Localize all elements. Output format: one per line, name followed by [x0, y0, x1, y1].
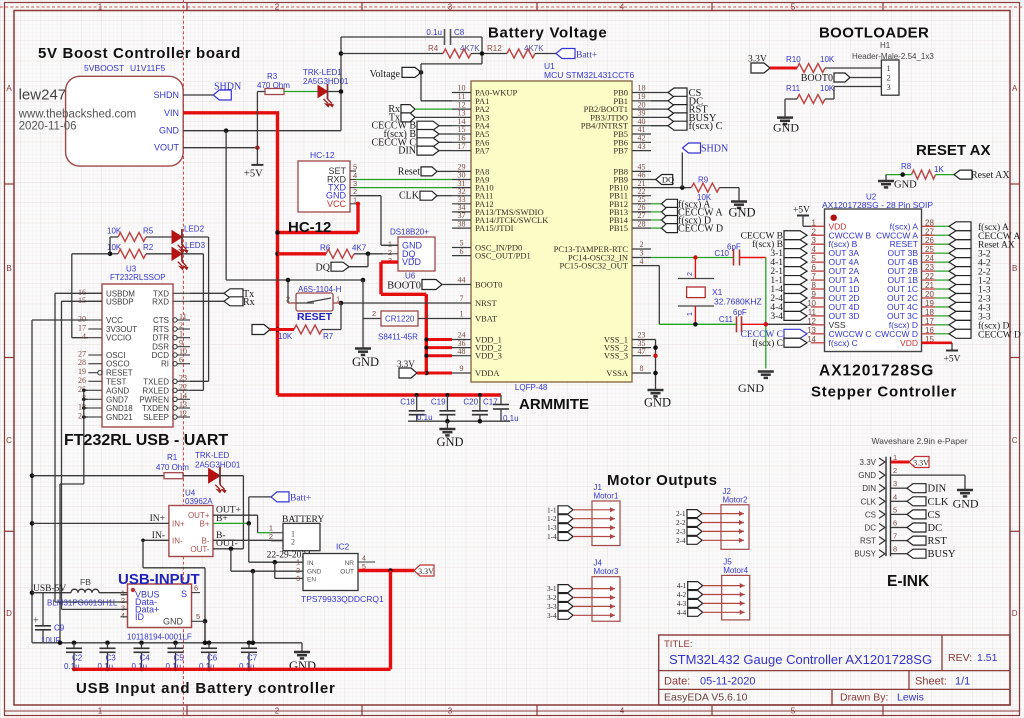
- svg-text:1: 1: [336, 295, 340, 304]
- svg-text:VSS_3: VSS_3: [604, 351, 628, 361]
- svg-text:7: 7: [893, 532, 897, 541]
- svg-text:VDD: VDD: [402, 257, 422, 267]
- svg-text:4: 4: [893, 492, 897, 501]
- svg-text:CLK: CLK: [928, 497, 949, 508]
- svg-text:ID: ID: [135, 612, 145, 622]
- svg-text:RESET: RESET: [297, 311, 333, 323]
- svg-text:CS: CS: [865, 510, 876, 519]
- svg-text:6: 6: [179, 356, 183, 365]
- svg-text:4-4: 4-4: [677, 609, 687, 617]
- svg-text:2A5G3HD01: 2A5G3HD01: [303, 77, 349, 86]
- svg-text:Motor2: Motor2: [723, 495, 748, 504]
- svg-text:PC15-OSC32_OUT: PC15-OSC32_OUT: [560, 261, 629, 271]
- svg-text:STM32L432 Gauge Controller AX1: STM32L432 Gauge Controller AX1201728SG: [669, 652, 932, 667]
- svg-text:GND: GND: [773, 121, 799, 135]
- svg-text:RI: RI: [161, 360, 169, 369]
- svg-text:4-2: 4-2: [677, 591, 687, 599]
- svg-text:CLK: CLK: [860, 497, 876, 506]
- svg-text:C9: C9: [54, 624, 65, 633]
- svg-text:DS18B20+: DS18B20+: [390, 228, 429, 237]
- svg-text:f(scx) C: f(scx) C: [689, 121, 723, 132]
- svg-text:HC-12: HC-12: [310, 150, 335, 160]
- svg-text:CR1220: CR1220: [385, 315, 415, 324]
- svg-text:VCCIO: VCCIO: [106, 334, 131, 343]
- svg-text:5: 5: [893, 505, 897, 514]
- svg-text:Voltage: Voltage: [370, 69, 401, 80]
- svg-text:Reset AX: Reset AX: [971, 170, 1010, 181]
- svg-text:GND: GND: [307, 569, 322, 576]
- svg-text:DQ: DQ: [316, 263, 331, 274]
- svg-text:+5V: +5V: [793, 206, 810, 216]
- svg-text:C18: C18: [400, 398, 415, 407]
- svg-text:S8411-45R: S8411-45R: [378, 333, 418, 342]
- svg-text:R2: R2: [143, 243, 154, 252]
- svg-text:PWREN: PWREN: [139, 395, 169, 404]
- svg-text:GND: GND: [953, 497, 979, 511]
- svg-text:IN+: IN+: [150, 514, 165, 524]
- svg-text:3: 3: [893, 479, 897, 488]
- svg-text:LED2: LED2: [184, 225, 205, 234]
- svg-text:470 Ohm: 470 Ohm: [156, 463, 189, 472]
- svg-text:44: 44: [458, 276, 466, 285]
- svg-text:DIN: DIN: [862, 484, 876, 493]
- svg-text:R11: R11: [786, 84, 801, 93]
- svg-text:GND18: GND18: [106, 404, 133, 413]
- svg-text:VDD_3: VDD_3: [475, 351, 502, 361]
- svg-text:3.3V: 3.3V: [913, 459, 929, 468]
- svg-text:10K: 10K: [278, 332, 293, 341]
- svg-text:0.1u: 0.1u: [426, 28, 442, 37]
- svg-text:CECCW D: CECCW D: [978, 330, 1021, 340]
- svg-text:20: 20: [78, 315, 86, 324]
- svg-text:D: D: [1012, 609, 1018, 618]
- svg-text:4K7: 4K7: [352, 244, 367, 253]
- svg-text:22: 22: [179, 382, 187, 391]
- svg-text:CLK: CLK: [399, 191, 420, 202]
- svg-text:2: 2: [372, 309, 376, 318]
- svg-text:EasyEDA V5.6.10: EasyEDA V5.6.10: [664, 692, 748, 704]
- svg-text:f(scx) C: f(scx) C: [829, 338, 858, 348]
- svg-text:GND: GND: [163, 617, 184, 627]
- svg-text:23: 23: [179, 373, 187, 382]
- svg-text:RST: RST: [860, 537, 876, 546]
- svg-text:5VBOOST: 5VBOOST: [84, 63, 124, 73]
- svg-text:D: D: [6, 609, 12, 618]
- svg-text:C: C: [1012, 436, 1018, 445]
- svg-text:GND: GND: [644, 396, 671, 410]
- svg-text:10UF: 10UF: [41, 636, 61, 645]
- svg-text:26: 26: [78, 376, 86, 385]
- svg-text:4: 4: [620, 707, 625, 716]
- svg-text:OUT: OUT: [340, 569, 354, 576]
- svg-text:2: 2: [291, 538, 295, 547]
- svg-text:Batt+: Batt+: [290, 494, 311, 504]
- svg-text:6: 6: [893, 519, 897, 528]
- svg-text:R4: R4: [428, 44, 439, 53]
- svg-text:GND7: GND7: [106, 395, 129, 404]
- svg-text:DC: DC: [928, 523, 943, 534]
- svg-text:EN: EN: [307, 577, 316, 584]
- svg-text:Stepper Controller: Stepper Controller: [811, 384, 957, 401]
- svg-text:1/1: 1/1: [955, 676, 970, 688]
- svg-text:17: 17: [458, 142, 466, 151]
- svg-text:GND: GND: [729, 206, 756, 220]
- svg-text:RXLED: RXLED: [142, 386, 169, 395]
- svg-text:28: 28: [78, 358, 86, 367]
- svg-text:2: 2: [687, 272, 694, 276]
- svg-text:3-2: 3-2: [547, 594, 557, 602]
- svg-text:GND: GND: [738, 381, 764, 395]
- svg-text:FT232RL USB - UART: FT232RL USB - UART: [64, 432, 228, 449]
- svg-text:3: 3: [448, 707, 453, 716]
- svg-text:RST: RST: [928, 536, 948, 547]
- svg-text:Waveshare 2.9in e-Paper: Waveshare 2.9in e-Paper: [872, 436, 968, 446]
- svg-text:Batt+: Batt+: [576, 51, 597, 61]
- svg-text:R12: R12: [487, 44, 502, 53]
- svg-text:SHDN: SHDN: [701, 144, 728, 155]
- svg-text:1: 1: [887, 63, 891, 73]
- svg-text:13: 13: [179, 400, 187, 409]
- svg-text:1: 1: [296, 560, 300, 567]
- svg-text:TRK-LED: TRK-LED: [195, 451, 229, 460]
- svg-text:1-1: 1-1: [547, 506, 557, 514]
- svg-text:www.thebackshed.com: www.thebackshed.com: [18, 109, 137, 121]
- svg-text:2-3: 2-3: [676, 528, 686, 536]
- svg-text:2: 2: [887, 73, 891, 83]
- svg-text:4: 4: [82, 332, 86, 341]
- svg-text:E-INK: E-INK: [887, 573, 930, 590]
- svg-text:14: 14: [179, 391, 187, 400]
- svg-text:CTS: CTS: [153, 316, 169, 325]
- svg-text:B+: B+: [199, 519, 209, 528]
- svg-text:C19: C19: [431, 398, 446, 407]
- svg-text:AX1201728SG: AX1201728SG: [819, 363, 934, 380]
- svg-text:3-4: 3-4: [547, 612, 557, 620]
- svg-text:8: 8: [640, 364, 644, 373]
- svg-text:BUSY: BUSY: [928, 549, 956, 560]
- svg-text:PA7: PA7: [475, 146, 489, 156]
- svg-text:Date:: Date:: [664, 676, 690, 688]
- svg-text:17: 17: [78, 324, 86, 333]
- svg-text:C20: C20: [463, 398, 478, 407]
- svg-text:1-3: 1-3: [547, 524, 557, 532]
- svg-text:6pF: 6pF: [733, 308, 747, 317]
- svg-text:U1V11F5: U1V11F5: [130, 63, 166, 73]
- svg-text:FT232RLSSOP: FT232RLSSOP: [110, 273, 166, 282]
- svg-text:C8: C8: [454, 28, 465, 37]
- svg-text:BOOT0: BOOT0: [387, 281, 421, 292]
- svg-text:TITLE:: TITLE:: [664, 639, 693, 650]
- svg-text:Lewis: Lewis: [897, 692, 924, 704]
- svg-text:BLM31PG601SH1L: BLM31PG601SH1L: [47, 599, 118, 608]
- svg-text:Rx: Rx: [243, 297, 255, 308]
- svg-text:VIN: VIN: [164, 108, 179, 118]
- svg-text:BOOTLOADER: BOOTLOADER: [819, 25, 929, 42]
- svg-text:+5V: +5V: [244, 169, 263, 180]
- svg-text:PB7: PB7: [613, 146, 628, 156]
- svg-text:R10: R10: [786, 55, 801, 64]
- svg-text:38: 38: [458, 219, 466, 228]
- svg-text:05-11-2020: 05-11-2020: [700, 676, 755, 688]
- svg-text:NR: NR: [345, 560, 355, 567]
- svg-text:Sheet:: Sheet:: [915, 676, 947, 688]
- svg-text:27: 27: [78, 350, 86, 359]
- svg-text:GND: GND: [858, 471, 876, 480]
- svg-text:GND: GND: [437, 435, 464, 449]
- svg-text:DTR: DTR: [153, 334, 170, 343]
- svg-text:9: 9: [460, 364, 464, 373]
- svg-text:B: B: [6, 264, 11, 273]
- svg-text:R5: R5: [143, 227, 154, 236]
- svg-text:5: 5: [196, 612, 200, 621]
- svg-text:VOUT: VOUT: [154, 143, 180, 153]
- svg-text:03962A: 03962A: [185, 497, 213, 506]
- svg-text:TEST: TEST: [106, 377, 127, 386]
- svg-text:1: 1: [425, 309, 429, 318]
- svg-text:OSCI: OSCI: [106, 351, 126, 360]
- svg-text:PA15/JTDI: PA15/JTDI: [475, 223, 514, 233]
- svg-text:5: 5: [791, 707, 796, 716]
- svg-text:3-4: 3-4: [770, 312, 783, 322]
- svg-text:1.51: 1.51: [977, 652, 998, 664]
- svg-text:1-4: 1-4: [547, 533, 557, 541]
- svg-text:DCD: DCD: [152, 351, 170, 360]
- svg-text:GND: GND: [352, 355, 379, 369]
- svg-text:GND: GND: [894, 180, 917, 191]
- svg-text:R3: R3: [267, 72, 278, 81]
- svg-text:Motor3: Motor3: [594, 567, 619, 576]
- svg-text:2: 2: [893, 466, 897, 475]
- svg-text:A: A: [1012, 84, 1018, 93]
- svg-text:Motor4: Motor4: [723, 566, 748, 575]
- svg-text:X1: X1: [712, 287, 723, 297]
- svg-text:3V3OUT: 3V3OUT: [106, 325, 137, 334]
- svg-text:BUSY: BUSY: [854, 550, 876, 559]
- svg-text:LQFP-48: LQFP-48: [515, 383, 548, 392]
- svg-text:1: 1: [687, 312, 694, 316]
- svg-text:IN+: IN+: [172, 519, 185, 528]
- svg-text:VDD: VDD: [900, 338, 918, 348]
- svg-text:15: 15: [78, 296, 86, 305]
- svg-text:3-1: 3-1: [547, 585, 557, 593]
- svg-text:lew247: lew247: [19, 87, 67, 104]
- svg-text:2: 2: [275, 707, 280, 716]
- svg-text:DIN: DIN: [928, 484, 947, 495]
- svg-text:S: S: [181, 589, 187, 599]
- svg-text:IN: IN: [307, 560, 314, 567]
- svg-text:PB15: PB15: [609, 223, 628, 233]
- svg-text:4: 4: [121, 611, 125, 620]
- svg-text:VCC: VCC: [106, 316, 123, 325]
- svg-text:IN-: IN-: [172, 536, 183, 545]
- svg-text:3: 3: [887, 82, 891, 92]
- svg-text:12: 12: [179, 409, 187, 418]
- svg-text:1: 1: [98, 707, 103, 716]
- svg-text:OSC_OUT/PD1: OSC_OUT/PD1: [475, 251, 531, 261]
- svg-text:DIN: DIN: [398, 146, 416, 157]
- svg-text:FB: FB: [80, 577, 91, 587]
- svg-text:IN-: IN-: [152, 531, 165, 541]
- svg-text:U6: U6: [405, 272, 416, 281]
- svg-text:2-1: 2-1: [676, 510, 686, 518]
- svg-text:HC-12: HC-12: [288, 219, 331, 236]
- svg-text:f(scx) C: f(scx) C: [752, 338, 783, 349]
- svg-text:10K: 10K: [820, 55, 835, 64]
- svg-text:VCC: VCC: [327, 199, 347, 209]
- svg-text:B: B: [1012, 264, 1017, 273]
- svg-text:NRST: NRST: [475, 298, 498, 308]
- svg-text:48: 48: [458, 347, 466, 356]
- svg-text:10118194-0001LF: 10118194-0001LF: [127, 633, 192, 642]
- svg-text:4-1: 4-1: [677, 582, 687, 590]
- svg-text:RTS: RTS: [153, 325, 169, 334]
- svg-text:3-3: 3-3: [547, 603, 557, 611]
- svg-text:2: 2: [179, 321, 183, 330]
- svg-text:2A5G3HD01: 2A5G3HD01: [195, 461, 241, 470]
- svg-text:GND: GND: [159, 126, 180, 136]
- svg-text:7: 7: [460, 294, 464, 303]
- svg-text:R1: R1: [167, 453, 178, 462]
- svg-text:VBAT: VBAT: [475, 314, 498, 324]
- svg-text:DC: DC: [864, 524, 876, 533]
- svg-text:TXLED: TXLED: [143, 377, 169, 386]
- svg-text:3: 3: [296, 576, 300, 583]
- svg-text:OUT-: OUT-: [190, 545, 209, 554]
- svg-text:IC2: IC2: [336, 542, 350, 552]
- svg-text:28: 28: [638, 219, 646, 228]
- svg-text:DQ: DQ: [662, 175, 674, 185]
- svg-text:Motor Outputs: Motor Outputs: [607, 472, 717, 489]
- svg-text:TRK-LED1: TRK-LED1: [303, 68, 342, 77]
- svg-text:ARMMITE: ARMMITE: [519, 396, 589, 413]
- svg-text:USB Input and Battery controll: USB Input and Battery controller: [76, 680, 336, 697]
- svg-text:47: 47: [638, 347, 646, 356]
- svg-text:OSCO: OSCO: [106, 360, 130, 369]
- svg-text:11: 11: [179, 312, 187, 321]
- svg-text:4: 4: [640, 257, 644, 266]
- svg-text:CS: CS: [928, 510, 941, 521]
- svg-text:8: 8: [893, 545, 897, 554]
- svg-text:TPS79933QDDCRQ1: TPS79933QDDCRQ1: [301, 594, 384, 604]
- svg-text:10: 10: [179, 347, 187, 356]
- svg-text:32.7680KHZ: 32.7680KHZ: [714, 297, 762, 307]
- svg-text:1: 1: [179, 330, 183, 339]
- svg-text:MCU STM32L431CCT6: MCU STM32L431CCT6: [544, 70, 634, 80]
- svg-text:R7: R7: [323, 332, 334, 341]
- svg-text:USBDP: USBDP: [106, 297, 134, 306]
- svg-text:VDDA: VDDA: [475, 368, 500, 378]
- svg-text:RXD: RXD: [152, 297, 169, 306]
- svg-text:C11: C11: [719, 315, 734, 324]
- svg-text:C: C: [6, 436, 12, 445]
- svg-text:3.3V: 3.3V: [418, 567, 434, 576]
- svg-text:VSSA: VSSA: [606, 368, 629, 378]
- svg-text:SLEEP: SLEEP: [143, 413, 169, 422]
- svg-text:4-3: 4-3: [677, 600, 687, 608]
- svg-text:6: 6: [460, 247, 464, 256]
- svg-text:C17: C17: [483, 398, 498, 407]
- svg-text:GND21: GND21: [106, 413, 133, 422]
- svg-text:AGND: AGND: [106, 386, 129, 395]
- svg-text:R8: R8: [901, 162, 912, 171]
- svg-text:1K: 1K: [934, 165, 944, 174]
- svg-text:2: 2: [296, 568, 300, 575]
- svg-text:2-2: 2-2: [676, 519, 686, 527]
- svg-text:TXDEN: TXDEN: [142, 404, 169, 413]
- svg-text:2-4: 2-4: [676, 537, 686, 545]
- svg-text:Reset: Reset: [398, 166, 420, 177]
- svg-text:Battery Voltage: Battery Voltage: [488, 25, 607, 42]
- svg-text:10K: 10K: [820, 84, 835, 93]
- svg-text:1-2: 1-2: [547, 515, 557, 523]
- svg-text:+: +: [33, 616, 39, 627]
- svg-text:BOOT0: BOOT0: [475, 280, 502, 290]
- svg-text:A: A: [6, 84, 12, 93]
- svg-text:Motor1: Motor1: [594, 492, 619, 501]
- svg-text:+5V: +5V: [944, 355, 961, 365]
- svg-text:43: 43: [638, 142, 646, 151]
- svg-text:3.3V: 3.3V: [860, 458, 877, 467]
- svg-text:Drawn By:: Drawn By:: [840, 692, 888, 704]
- svg-text:SHDN: SHDN: [153, 90, 179, 100]
- svg-text:2020-11-06: 2020-11-06: [19, 121, 77, 133]
- svg-text:1: 1: [460, 310, 464, 319]
- svg-text:5V Boost Controller board: 5V Boost Controller board: [38, 45, 241, 62]
- svg-text:H1: H1: [880, 41, 891, 50]
- svg-text:RESET AX: RESET AX: [916, 142, 990, 159]
- svg-text:REV:: REV:: [948, 652, 972, 664]
- svg-text:LED3: LED3: [185, 241, 206, 250]
- svg-text:BOOT0: BOOT0: [801, 73, 833, 84]
- svg-text:USB-INPUT: USB-INPUT: [118, 571, 200, 588]
- svg-text:CECCW D: CECCW D: [678, 224, 723, 235]
